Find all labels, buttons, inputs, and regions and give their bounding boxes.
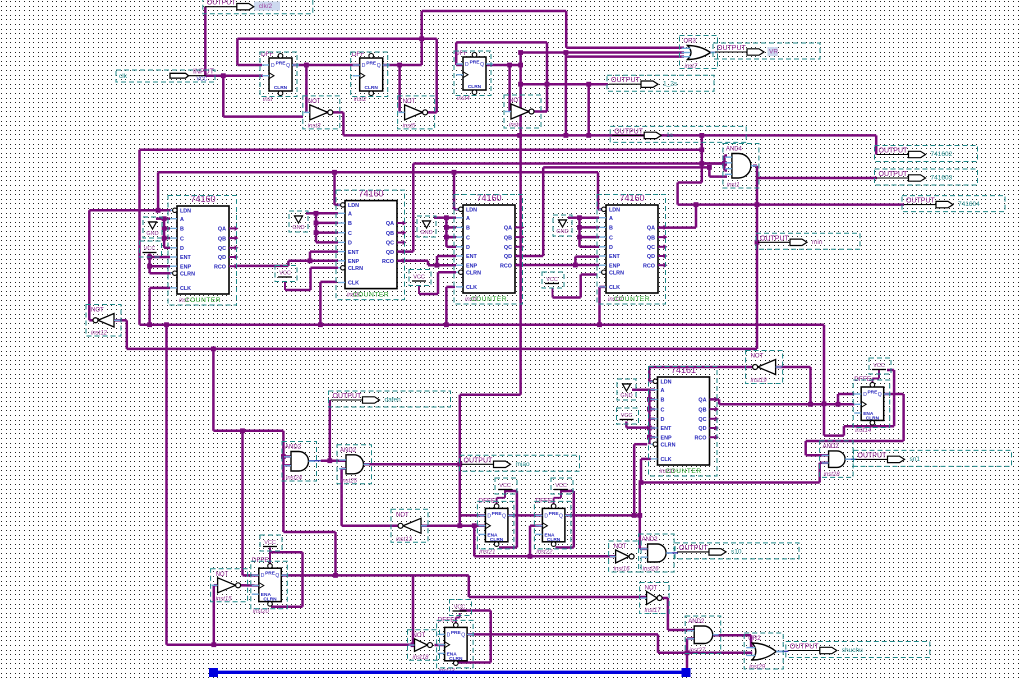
wire QD2 to AND4 (L1): [413, 162, 724, 165]
counter U1 74160: [170, 194, 238, 304]
wire to ENP2: [288, 260, 338, 263]
wire Q-r out: [884, 393, 904, 396]
svg-text:ENT: ENT: [348, 250, 359, 256]
wire: [316, 222, 338, 225]
wire GND1 stub: [156, 217, 164, 220]
wire NOT-161 input run: [776, 366, 811, 369]
svg-text:LDN: LDN: [609, 208, 620, 214]
flip-flop FF5 DFFE: [478, 497, 515, 555]
output connector s10: [677, 545, 742, 556]
wire: [649, 398, 655, 401]
wire LDN4 drop: [597, 172, 600, 209]
wire drop to y597: [468, 576, 471, 598]
svg-text:OUTPUT: OUTPUT: [207, 0, 237, 7]
wire AND4 in3 drop: [723, 164, 726, 171]
output connector 741603: [877, 171, 953, 182]
wire drop to AND-r in1: [804, 441, 807, 455]
ground GND1: [146, 222, 158, 237]
wire NOT1 output: [326, 111, 343, 114]
wire: [164, 247, 170, 250]
wire into CLRN-161: [634, 443, 647, 446]
wire ENT4 feed: [575, 255, 599, 258]
power VCC6: [498, 483, 512, 490]
node L1/x702: [699, 161, 704, 166]
wire CLRN2 drop: [309, 268, 312, 290]
wire y42 feedback to D3: [456, 41, 547, 44]
node x824/y404: [822, 401, 827, 406]
svg-text:D: D: [465, 62, 469, 68]
wire AND4 in4 drop: [708, 167, 711, 176]
junction: [577, 215, 582, 220]
wire DFFr D riser: [837, 394, 840, 404]
svg-text:NOT: NOT: [216, 572, 229, 578]
output connector min: [758, 235, 823, 246]
wire: [649, 427, 655, 430]
node clk junction: [221, 73, 226, 78]
node x422/y39: [419, 36, 424, 41]
counter U4 74160: [599, 193, 667, 303]
power VCC8: [453, 605, 467, 612]
wire NOT-L1 out to CLK: [240, 584, 259, 587]
node x702/y150: [699, 147, 704, 152]
svg-text:NOT: NOT: [751, 354, 764, 360]
wire Q-A to D-B: [508, 514, 543, 517]
svg-text:CLRN: CLRN: [490, 537, 504, 543]
svg-text:QA: QA: [698, 398, 706, 404]
wire long x521 vertical: [519, 53, 522, 395]
svg-text:VCC: VCC: [264, 540, 276, 546]
svg-text:NOT: NOT: [91, 308, 104, 314]
svg-text:VCC: VCC: [555, 483, 567, 489]
svg-text:GND: GND: [620, 393, 632, 399]
wire x474 drop: [473, 526, 476, 557]
wire x566 drop to 1s: [565, 57, 568, 136]
svg-text:OR2: OR2: [748, 636, 761, 642]
wire CLK-161 riser: [640, 459, 643, 483]
wire VCC-L wrap right: [301, 552, 304, 607]
output connector 1s: [612, 128, 674, 139]
svg-text:B: B: [661, 398, 665, 404]
selection box: [477, 501, 514, 549]
svg-text:D: D: [863, 392, 867, 398]
wire x422 riser: [420, 11, 423, 65]
wire NOT1 out drop: [342, 112, 345, 135]
svg-text:Q: Q: [461, 632, 465, 638]
svg-text:GND: GND: [420, 230, 432, 236]
svg-text:QD: QD: [218, 255, 226, 261]
svg-text:AND2: AND2: [688, 619, 705, 625]
junction: [318, 322, 323, 327]
wire VCC-LL wrap top: [460, 609, 491, 612]
wire: [164, 227, 170, 230]
wire QA4 out: [658, 226, 696, 229]
junction: [444, 322, 449, 327]
wire x242 drop to DFF-L D: [241, 431, 244, 576]
selection box: [289, 211, 308, 232]
svg-text:RCO: RCO: [382, 259, 394, 265]
wire ENT3 tie riser: [436, 256, 439, 265]
inverter N6: [212, 572, 241, 603]
output connector sn1: [856, 452, 921, 463]
svg-text:NOT: NOT: [396, 512, 409, 518]
svg-text:B: B: [466, 226, 470, 232]
svg-text:CLK: CLK: [609, 285, 620, 291]
junction: [147, 322, 152, 327]
node 1_2s/x589: [586, 82, 591, 87]
selection box: [282, 442, 317, 482]
svg-text:inst29: inst29: [749, 665, 766, 671]
flip-flop FF7 DFFE: [438, 616, 475, 674]
power VCC10: [872, 363, 886, 370]
svg-text:QB: QB: [386, 231, 394, 237]
svg-text:COUNTER: COUNTER: [471, 296, 507, 303]
selection box: [649, 367, 718, 477]
output connector miao: [462, 457, 530, 468]
counter U3 74160: [456, 193, 524, 303]
svg-text:CLK: CLK: [466, 285, 477, 291]
wire jog y532: [283, 531, 335, 534]
svg-text:OUTPUT: OUTPUT: [611, 77, 641, 84]
wire CLRN4 drop: [579, 275, 582, 298]
counter U2 74160: [338, 189, 406, 299]
node x521/y84: [518, 82, 523, 87]
wire CLK4 drop: [598, 287, 601, 325]
wire: [724, 154, 727, 157]
svg-text:GND: GND: [146, 231, 158, 237]
wire Q1 to NOT1 input: [305, 65, 308, 112]
svg-text:PRE: PRE: [265, 571, 276, 577]
svg-text:A: A: [609, 216, 613, 222]
junction: [647, 426, 652, 431]
wire CLK3 drop: [445, 287, 448, 325]
wire VCC-A wrap right: [516, 491, 519, 548]
svg-text:clk/2: clk/2: [259, 3, 273, 10]
node 1s/x521: [517, 133, 522, 138]
svg-text:PRE: PRE: [276, 61, 287, 67]
wire x213 drop: [212, 349, 215, 431]
svg-text:QB: QB: [218, 236, 226, 242]
wire x283 drop: [282, 431, 285, 532]
wire: [872, 378, 879, 380]
wire AND4 out long vertical: [756, 166, 759, 349]
wire VCC-LL wrap bottom to CLRN: [458, 661, 491, 664]
wire CLRN2 feed: [311, 267, 339, 270]
svg-text:CLRN: CLRN: [466, 270, 481, 276]
junction: [314, 221, 319, 226]
selection box: [391, 509, 428, 542]
wire: [496, 498, 498, 506]
wire into D3: [456, 64, 462, 67]
svg-text:D: D: [487, 513, 491, 519]
wire x460 vertical: [459, 395, 462, 526]
svg-text:OUTPUT: OUTPUT: [879, 171, 909, 178]
wire CLRN3 drop: [437, 272, 440, 294]
power VCC4: [545, 277, 559, 284]
wire: [456, 617, 460, 619]
svg-text:clk: clk: [119, 73, 128, 80]
flip-flop FF2 DFF: [352, 51, 390, 103]
junction: [162, 226, 167, 231]
inverter N5 (points left): [396, 512, 427, 543]
svg-text:LDN: LDN: [661, 380, 672, 386]
svg-text:VCC: VCC: [454, 605, 466, 611]
wire OR2b out to OUTPUT shuchu: [776, 650, 788, 652]
svg-text:D: D: [466, 245, 470, 251]
svg-text:CLRN: CLRN: [547, 537, 561, 543]
node Q-B/x634: [632, 513, 637, 518]
wire Q-B run: [565, 514, 640, 517]
node x547/y84: [545, 82, 550, 87]
svg-text:Q: Q: [878, 392, 882, 398]
svg-text:CLRN: CLRN: [609, 270, 624, 276]
svg-text:OR3: OR3: [684, 39, 697, 45]
junction: [411, 642, 416, 647]
svg-text:QB: QB: [504, 235, 512, 241]
svg-text:QA: QA: [218, 227, 226, 233]
junction: [333, 573, 338, 578]
svg-text:A: A: [661, 388, 665, 394]
wire NOT-L1 input riser: [213, 585, 216, 645]
wire OR jog drop: [565, 53, 568, 57]
selection box: [336, 190, 405, 300]
wire x687 drop to blue end: [686, 639, 689, 671]
svg-text:shuchu: shuchu: [842, 647, 863, 654]
svg-text:GND: GND: [292, 225, 304, 231]
svg-text:RCO: RCO: [695, 435, 707, 441]
wire to OUTPUT 741603: [757, 177, 877, 180]
junction: [162, 236, 167, 241]
svg-text:QC: QC: [504, 245, 512, 251]
wire D1 riser: [236, 39, 239, 65]
wire drop to OR2b in1: [750, 635, 753, 647]
wire: [446, 286, 455, 289]
wire GND-161 stub: [632, 388, 649, 391]
svg-text:LDN: LDN: [466, 208, 477, 214]
selection box: [675, 543, 799, 559]
wire: [335, 204, 341, 207]
wire: [580, 236, 600, 239]
node AND2a/dafen: [327, 458, 332, 463]
svg-text:NOT: NOT: [614, 544, 627, 550]
wire drop y653: [657, 634, 660, 652]
wire y205 to OUTPUT 741604: [678, 203, 904, 206]
svg-text:D: D: [180, 246, 184, 252]
svg-text:QB: QB: [647, 235, 655, 241]
svg-text:Q: Q: [480, 62, 484, 68]
wire: [164, 237, 170, 240]
wire GND2 stub: [306, 212, 316, 215]
ground GND5 (74161): [620, 384, 632, 399]
junction: [444, 225, 449, 230]
wire CLRN jog 2: [843, 426, 846, 435]
ground GND4: [556, 220, 568, 235]
wire CLK-B riser: [529, 526, 532, 557]
output connector clk/2: [205, 0, 273, 10]
svg-text:ENT: ENT: [180, 255, 191, 261]
svg-text:B: B: [348, 221, 352, 227]
selection box: [744, 633, 783, 669]
wire LDN1 feed: [89, 209, 171, 212]
wire CLRN4 feed: [581, 273, 597, 276]
wire Q-B riser / AND-mid in1 drop: [639, 483, 642, 549]
inverter N8: [641, 586, 663, 615]
svg-text:Q: Q: [559, 513, 563, 519]
wire: [724, 169, 727, 172]
or gate O2: [746, 636, 782, 671]
svg-text:CLRN: CLRN: [348, 266, 363, 272]
wire C1 VCC tie: [148, 254, 151, 274]
wire VCC-161 drop: [625, 422, 628, 428]
wire riser to OUTPUT dafen: [329, 400, 332, 461]
svg-text:QC: QC: [647, 245, 655, 251]
svg-text:NOT: NOT: [403, 99, 416, 105]
selection box: [275, 266, 297, 282]
node LDN3 tap: [452, 170, 457, 175]
selection box: [86, 305, 121, 337]
power VCC2: [278, 271, 292, 278]
svg-text:min: min: [812, 239, 823, 246]
wire RCO1 jog: [287, 261, 290, 266]
svg-text:AND2: AND2: [340, 448, 357, 454]
wire NOT-161 out to LDN: [649, 366, 752, 369]
selection box: [460, 455, 580, 471]
wire: [316, 231, 338, 234]
ground GND3: [420, 221, 432, 236]
wire x904 drop: [902, 394, 905, 441]
wire D3 riser: [455, 42, 458, 65]
selection box: [610, 126, 746, 142]
node QA4/y205: [694, 202, 699, 207]
wire: [446, 236, 456, 239]
node LDN2 tap: [332, 170, 337, 175]
power VCC7: [554, 483, 568, 490]
wire ENT3 feed: [437, 255, 456, 258]
svg-text:ENT: ENT: [661, 426, 672, 432]
node AND2a in1: [281, 454, 286, 459]
wire y150 long run: [140, 149, 702, 152]
wire NOT3 out riser: [546, 42, 549, 111]
wire NOT-2b output: [662, 597, 668, 600]
svg-text:ENP: ENP: [180, 264, 191, 270]
wire GND4 stub: [568, 216, 580, 219]
wire VCC-B wrap right: [573, 491, 576, 548]
junction: [147, 264, 152, 269]
selection box: [251, 561, 287, 609]
wire: [150, 272, 171, 275]
wire OR3 input3: [566, 55, 684, 58]
svg-text:D: D: [544, 513, 548, 519]
wire: [150, 265, 170, 268]
node DFFr D tap: [836, 402, 841, 407]
svg-text:VCC: VCC: [144, 246, 156, 252]
wire: [316, 241, 338, 244]
wire NOT3 output: [527, 110, 547, 113]
node Q2: [397, 63, 402, 68]
node 1s/x702: [699, 133, 704, 138]
inverter N3: [505, 98, 534, 129]
wire clk drop: [222, 76, 225, 117]
wire VCC3 stem: [418, 286, 420, 295]
svg-text:CLK: CLK: [348, 281, 359, 287]
flip-flop FF1 DFF: [261, 51, 299, 103]
wire AND-r in2 riser: [818, 463, 821, 483]
svg-text:GND: GND: [556, 229, 568, 235]
svg-text:QA: QA: [386, 221, 394, 227]
svg-text:CLRN: CLRN: [661, 442, 676, 448]
wire: [446, 226, 456, 229]
selection box: [211, 569, 248, 602]
wire jog to x678: [678, 181, 702, 184]
svg-text:inst20: inst20: [253, 609, 270, 615]
wire QA jog: [718, 399, 721, 404]
junction: [472, 523, 477, 528]
wire VCC-B jog: [560, 490, 562, 498]
wire into DFF-L D: [243, 574, 259, 577]
node x757/y242 (still tap): [755, 240, 760, 245]
wire QA run to DFFr CLK: [719, 403, 854, 406]
svg-text:miao: miao: [516, 461, 530, 468]
wire VCC-A wrap bottom to CLRN: [499, 546, 517, 549]
wire into CLK-161: [641, 458, 651, 461]
node x757/y205: [755, 202, 760, 207]
wire x668 drop: [667, 598, 670, 630]
svg-text:PRE: PRE: [867, 390, 878, 396]
selection box: [553, 215, 572, 236]
junction: [164, 322, 169, 327]
wire AND-2b in1: [668, 629, 694, 632]
svg-text:NOT: NOT: [509, 98, 522, 104]
wire y349 long run: [127, 348, 757, 351]
wire: [709, 175, 727, 178]
svg-text:s10: s10: [731, 548, 742, 555]
wire to ENP3: [428, 264, 456, 267]
wire to OUTPUT 741602: [875, 135, 878, 154]
wire ENT4 tie riser: [574, 257, 577, 265]
selection box: [450, 600, 472, 616]
svg-text:VCC: VCC: [413, 275, 425, 281]
svg-text:Q: Q: [286, 63, 290, 69]
svg-text:QD: QD: [504, 254, 512, 260]
wire NOT-fb out stub: [89, 319, 95, 322]
junction: [577, 225, 582, 230]
wire y597 run: [469, 596, 647, 599]
svg-text:ENP: ENP: [609, 263, 620, 269]
wire to VCCr: [887, 369, 894, 372]
svg-text:741602: 741602: [931, 151, 953, 158]
selection box: [640, 583, 670, 614]
svg-text:Q: Q: [275, 573, 279, 579]
svg-text:VCC: VCC: [279, 271, 291, 277]
svg-text:B: B: [609, 226, 613, 232]
selection box: [337, 445, 372, 484]
wire y526 CLK-A feed: [420, 524, 485, 527]
junction: [577, 235, 582, 240]
svg-text:A: A: [466, 216, 470, 222]
svg-text:PRE: PRE: [492, 511, 503, 517]
junction: [597, 322, 602, 327]
wire Q1 to D2: [292, 64, 359, 67]
svg-text:sn1: sn1: [910, 456, 921, 463]
node x521 top: [518, 50, 523, 55]
node y556/x530: [528, 554, 533, 559]
svg-text:OUTPUT: OUTPUT: [760, 235, 790, 242]
wire x678 drop: [676, 183, 679, 205]
wire: [455, 618, 457, 625]
wire Q3 to NOT3 input: [508, 65, 511, 112]
svg-text:RCO: RCO: [500, 263, 512, 269]
junction: [162, 216, 167, 221]
svg-text:LDN: LDN: [180, 209, 191, 215]
